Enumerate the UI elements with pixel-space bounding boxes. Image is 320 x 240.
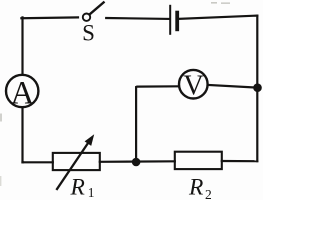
svg-text:R: R xyxy=(188,175,203,200)
junction node (R1-R2, voltmeter tap) xyxy=(132,158,141,167)
label R2 xyxy=(188,175,212,202)
svg-text:V: V xyxy=(183,71,204,102)
wire voltmeter right branch (voltmeter to right wire) xyxy=(209,85,258,88)
svg-text:1: 1 xyxy=(88,185,95,200)
wire voltmeter left branch (junction up and right to voltmeter) xyxy=(136,86,178,160)
svg-text:2: 2 xyxy=(205,187,212,200)
wire bottom-left segment (corner to R1) xyxy=(23,161,53,163)
wire left vertical lower (ammeter to bottom-left corner) xyxy=(21,108,24,163)
wire top-left segment (top-left corner to switch) xyxy=(21,16,78,19)
wire top-middle segment (switch to battery) xyxy=(106,17,169,20)
wire left vertical upper (top-left corner down to ammeter) xyxy=(21,17,23,74)
label R1 xyxy=(70,175,95,201)
wire right vertical (top-right corner to bottom-right corner) xyxy=(256,16,258,162)
resistor R2 body xyxy=(175,152,222,169)
wire bottom-right segment (R2 to bottom-right corner) xyxy=(222,160,257,162)
rheostat arrow xyxy=(57,134,94,189)
wire top-right segment (battery to top-right corner) xyxy=(179,16,257,19)
ammeter A xyxy=(6,75,38,107)
svg-text:S: S xyxy=(82,20,95,45)
svg-text:R: R xyxy=(70,175,85,200)
svg-text:A: A xyxy=(10,76,34,112)
wire bottom-middle segment (R1 to R2 through junction) xyxy=(100,160,175,163)
switch S xyxy=(83,2,104,21)
resistor R1 (rheostat body) xyxy=(53,153,100,170)
voltmeter V xyxy=(179,70,208,99)
junction node (right wire) xyxy=(253,83,262,92)
battery xyxy=(170,6,177,34)
scan speckles (decorative) xyxy=(0,2,230,186)
